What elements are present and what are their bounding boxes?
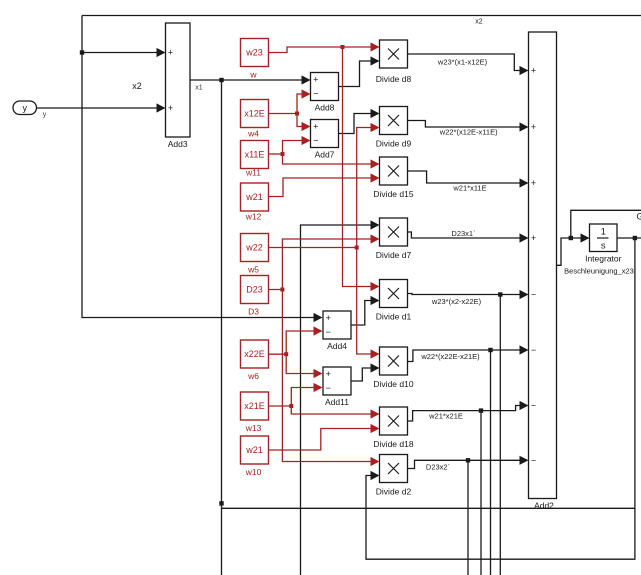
svg-text:x11E: x11E	[245, 150, 265, 160]
svg-text:+: +	[313, 75, 318, 85]
svg-text:w21: w21	[245, 192, 263, 202]
svg-text:+: +	[531, 66, 536, 76]
svg-text:w4: w4	[247, 129, 259, 139]
svg-text:G: G	[637, 212, 641, 222]
svg-text:Integrator: Integrator	[585, 254, 622, 264]
svg-text:Add2: Add2	[534, 501, 554, 511]
svg-text:+: +	[531, 122, 536, 132]
svg-text:w22: w22	[245, 243, 263, 253]
svg-text:w23: w23	[245, 48, 263, 58]
svg-text:−: −	[326, 327, 331, 337]
svg-text:s: s	[601, 241, 606, 252]
svg-text:Divide d7: Divide d7	[376, 250, 412, 260]
svg-text:+: +	[531, 233, 536, 243]
svg-text:+: +	[531, 178, 536, 188]
svg-text:Divide d10: Divide d10	[373, 379, 413, 389]
svg-text:Divide d15: Divide d15	[373, 189, 413, 199]
svg-text:w: w	[249, 70, 257, 80]
svg-text:w5: w5	[247, 265, 259, 275]
svg-text:w21: w21	[245, 445, 263, 455]
svg-text:Beschleunigung_x23: Beschleunigung_x23	[564, 267, 634, 276]
svg-text:w11: w11	[245, 168, 261, 178]
svg-text:Add7: Add7	[315, 150, 335, 160]
svg-text:x1: x1	[195, 85, 203, 92]
svg-text:x21E: x21E	[244, 401, 265, 411]
svg-text:w22*(x22E-x21E): w22*(x22E-x21E)	[420, 352, 480, 361]
svg-text:w23*(x2-x22E): w23*(x2-x22E)	[431, 297, 482, 306]
svg-text:Add3: Add3	[168, 139, 188, 149]
svg-text:+: +	[326, 313, 331, 323]
svg-text:−: −	[531, 455, 536, 465]
svg-text:w23*(x1-x12E): w23*(x1-x12E)	[437, 58, 488, 67]
svg-text:x22E: x22E	[244, 349, 265, 359]
svg-text:x2: x2	[132, 81, 142, 91]
svg-text:w22*(x12E-x11E): w22*(x12E-x11E)	[439, 128, 498, 137]
svg-text:Divide d2: Divide d2	[376, 487, 412, 497]
svg-text:−: −	[531, 290, 536, 300]
svg-text:D3: D3	[248, 307, 259, 317]
svg-text:w12: w12	[245, 212, 262, 222]
svg-text:−: −	[313, 89, 318, 99]
svg-text:D23: D23	[246, 285, 263, 295]
svg-text:Add4: Add4	[327, 341, 347, 351]
svg-text:w21*x21E: w21*x21E	[428, 412, 463, 421]
svg-text:+: +	[326, 369, 331, 379]
svg-text:Add8: Add8	[315, 103, 335, 113]
svg-text:−: −	[313, 136, 318, 146]
svg-text:−: −	[531, 345, 536, 355]
svg-text:−: −	[326, 383, 331, 393]
svg-text:−: −	[531, 401, 536, 411]
svg-text:Divide d8: Divide d8	[376, 74, 412, 84]
svg-text:+: +	[313, 122, 318, 132]
svg-text:w10: w10	[245, 467, 262, 477]
svg-text:+: +	[168, 48, 173, 58]
svg-text:1: 1	[601, 227, 606, 238]
svg-text:Divide d1: Divide d1	[376, 312, 412, 322]
svg-text:D23x1`: D23x1`	[451, 229, 475, 238]
svg-text:Divide d9: Divide d9	[376, 139, 412, 149]
svg-text:w13: w13	[245, 423, 262, 433]
svg-text:D23x2`: D23x2`	[426, 463, 450, 472]
svg-text:y: y	[22, 103, 27, 113]
svg-text:Divide d18: Divide d18	[373, 439, 413, 449]
svg-text:+: +	[168, 103, 173, 113]
svg-text:w21*x11E: w21*x11E	[452, 184, 486, 193]
svg-text:x2: x2	[475, 18, 483, 25]
svg-text:y: y	[43, 112, 47, 119]
svg-text:x12E: x12E	[244, 109, 265, 119]
svg-text:w6: w6	[247, 371, 259, 381]
svg-text:Add11: Add11	[325, 397, 349, 407]
